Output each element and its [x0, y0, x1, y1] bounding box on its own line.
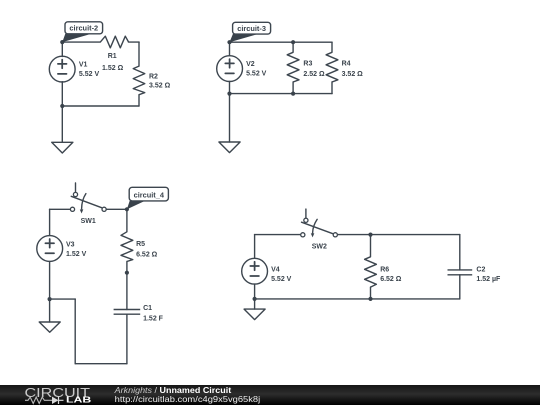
capacitor C2: [448, 270, 473, 275]
svg-text:R1: R1: [108, 53, 117, 60]
wire node A down to V1 top: [61, 42, 63, 56]
ground symbol: [52, 142, 73, 153]
junction dot R5-C1: [125, 271, 129, 275]
svg-text:R4: R4: [342, 61, 351, 68]
voltage source V3: [37, 236, 63, 262]
node label circuit-2 callout tail: [62, 34, 91, 42]
svg-text:V2: V2: [246, 61, 255, 68]
wire R4 bottom lead: [331, 82, 333, 94]
svg-text:1.52 V: 1.52 V: [66, 251, 87, 258]
ground symbol: [219, 142, 240, 153]
svg-text:V4: V4: [271, 266, 280, 273]
wire R2 bottom to corner: [138, 95, 140, 106]
wire R6 top lead: [370, 235, 372, 257]
node label circuit-2 box: [65, 22, 103, 34]
node C junction dot: [125, 207, 129, 211]
svg-text:C1: C1: [143, 305, 152, 312]
svg-text:V1: V1: [79, 62, 88, 69]
wire SW1 right to node C: [106, 208, 127, 210]
svg-text:6.52 Ω: 6.52 Ω: [136, 251, 158, 258]
svg-text:http://circuitlab.com/c4g9x5vg: http://circuitlab.com/c4g9x5vg65k8j: [115, 395, 261, 404]
junction dot R3 bottom: [291, 92, 295, 96]
wire junction right: [50, 298, 76, 300]
wire corner down to V3 top: [49, 209, 51, 235]
wire V3 bottom to ground: [49, 261, 51, 322]
svg-text:circuit-2: circuit-2: [69, 24, 98, 33]
wire C2 top lead: [459, 235, 461, 270]
node label circuit-3 box: [233, 22, 271, 34]
capacitor C1: [114, 310, 141, 315]
svg-text:3.52 Ω: 3.52 Ω: [342, 71, 364, 78]
node A junction dot: [60, 40, 64, 44]
wire node C down to R5 top: [126, 209, 128, 232]
svg-text:5.52 V: 5.52 V: [271, 276, 292, 283]
resistor R1: [100, 36, 128, 48]
svg-text:6.52 Ω: 6.52 Ω: [380, 276, 402, 283]
switch SW2: [301, 209, 338, 237]
node label circuit_4 box: [129, 187, 168, 201]
wire node B down to V2 top: [229, 42, 231, 55]
wire R3 bottom lead: [292, 82, 294, 94]
svg-text:R2: R2: [149, 74, 158, 81]
resistor R5: [121, 232, 133, 262]
node label circuit-3 callout tail: [230, 34, 259, 42]
ground symbol: [39, 322, 60, 332]
wire R1 right to corner: [129, 41, 139, 43]
svg-text:1.52 Ω: 1.52 Ω: [102, 65, 124, 72]
junction dot R3 top: [291, 40, 295, 44]
svg-text:3.52 Ω: 3.52 Ω: [149, 83, 171, 90]
wire bottom rail: [255, 298, 460, 300]
wire V1 bottom to ground: [61, 82, 63, 143]
voltage source V2: [217, 56, 243, 82]
resistor R4: [326, 52, 338, 82]
svg-text:circuit_4: circuit_4: [134, 190, 165, 199]
wire bottom rail to V1 branch: [62, 105, 139, 107]
wire V4 bottom to ground: [254, 284, 256, 309]
svg-text:R3: R3: [303, 61, 312, 68]
resistor R2: [133, 66, 145, 95]
svg-text:V3: V3: [66, 241, 75, 248]
wire top rail circuit-3: [230, 41, 333, 43]
voltage source V4: [242, 258, 268, 284]
junction dot R6 top: [368, 233, 372, 237]
wire corner down to V4 top: [254, 235, 256, 259]
wire V2 bottom to ground: [229, 82, 231, 143]
resistor R3: [287, 52, 299, 82]
wire C2 bottom lead: [459, 275, 461, 299]
svg-text:C2: C2: [476, 266, 485, 273]
svg-text:R6: R6: [380, 266, 389, 273]
wire corner down to R2 top: [138, 42, 140, 66]
resistor R6: [365, 257, 377, 287]
node label circuit_4 callout tail: [127, 201, 145, 210]
junction dot V4 bottom: [253, 297, 257, 301]
wire down left branch: [74, 299, 76, 364]
node B junction dot: [227, 40, 231, 44]
svg-text:SW1: SW1: [81, 218, 96, 225]
svg-text:1.52 F: 1.52 F: [143, 315, 164, 322]
wire top rail right segment: [337, 234, 459, 236]
logo resistor-diode symbol: [25, 397, 48, 403]
svg-text:2.52 Ω: 2.52 Ω: [303, 71, 325, 78]
junction dot V2 bottom: [227, 92, 231, 96]
svg-text:R5: R5: [136, 241, 145, 248]
svg-text:5.52 V: 5.52 V: [246, 71, 267, 78]
svg-text:LAB: LAB: [66, 396, 92, 405]
junction dot V3 bottom: [48, 297, 52, 301]
wire C1 top to R5 bottom: [126, 262, 128, 310]
svg-text:SW2: SW2: [312, 243, 327, 250]
svg-text:1.52 µF: 1.52 µF: [476, 276, 501, 283]
svg-text:circuit-3: circuit-3: [237, 24, 266, 33]
wire R6 bottom lead: [370, 287, 372, 299]
svg-text:5.52 V: 5.52 V: [79, 71, 100, 78]
wire up to C1 bottom: [126, 314, 128, 364]
wire SW1 left to corner: [50, 208, 71, 210]
voltage source V1: [49, 56, 75, 82]
wire top rail left segment: [255, 234, 301, 236]
switch SW1: [70, 183, 106, 214]
wire R3 top lead: [292, 42, 294, 52]
wire bottom run: [75, 363, 127, 365]
junction dot R6 bottom: [368, 297, 372, 301]
junction dot bottom-left: [60, 104, 64, 108]
wire bottom rail circuit-3: [230, 93, 333, 95]
svg-text:Arknights / Unnamed Circuit: Arknights / Unnamed Circuit: [114, 386, 232, 395]
ground symbol: [244, 309, 265, 320]
wire R4 top lead: [331, 42, 333, 52]
wire node A to R1 left: [62, 41, 100, 43]
